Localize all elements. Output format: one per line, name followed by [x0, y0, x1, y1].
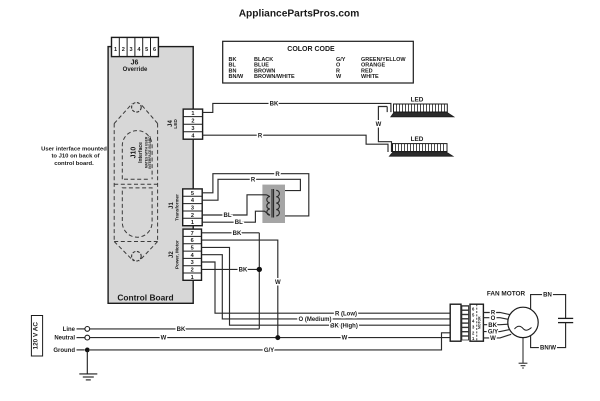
pin numbers J1	[191, 191, 195, 226]
svg-text:2: 2	[191, 119, 194, 125]
svg-text:LED: LED	[411, 97, 424, 104]
fan connector header with pin numbers	[470, 304, 483, 341]
J10 interface outline lower	[122, 188, 152, 237]
svg-text:W: W	[161, 336, 167, 342]
svg-text:5: 5	[191, 246, 194, 252]
connector J2	[183, 229, 202, 280]
wire W J2 pin6 to neutral	[202, 240, 278, 338]
120 V AC source box	[31, 316, 42, 357]
svg-text:BL: BL	[224, 213, 232, 219]
wire G/Y ground to fan connector	[90, 333, 450, 350]
svg-text:G/Y: G/Y	[264, 348, 274, 354]
pin numbers J4	[191, 111, 195, 140]
wire BK junction vertical to line	[258, 233, 260, 329]
svg-text:O (Medium): O (Medium)	[299, 317, 332, 323]
wire G/Y fan connector to motor	[483, 330, 509, 332]
fan connector P1 housing	[450, 304, 461, 341]
junction dot BK	[257, 267, 262, 272]
svg-text:Interface: Interface	[138, 142, 144, 163]
svg-text:G/Y: G/Y	[488, 330, 498, 336]
wire BK J4 pin1 to LED1	[202, 103, 391, 112]
annotation: user interface mounted to J10	[41, 146, 107, 167]
svg-text:3: 3	[191, 206, 194, 212]
wire R J1 pin5 to transformer secondary bottom	[202, 174, 309, 216]
wire BK line to J2	[90, 328, 259, 330]
svg-text:BROWN/WHITE: BROWN/WHITE	[254, 74, 295, 80]
wire W fan connector to motor	[483, 334, 511, 338]
transformer T1	[262, 185, 285, 223]
svg-text:120 V AC: 120 V AC	[32, 322, 39, 350]
svg-text:3: 3	[191, 126, 194, 132]
svg-text:BK (High): BK (High)	[330, 323, 358, 329]
svg-text:LED: LED	[173, 119, 179, 129]
color code legend box	[223, 41, 414, 83]
fan connector pin ladder	[461, 305, 469, 340]
pin numbers J2	[191, 231, 195, 281]
svg-text:1: 1	[114, 47, 117, 53]
svg-text:O: O	[491, 316, 496, 322]
svg-text:FAN MOTOR: FAN MOTOR	[487, 290, 526, 297]
svg-text:Ground: Ground	[53, 348, 75, 354]
wire R fan connector to motor	[483, 313, 510, 315]
wire O fan connector to motor	[483, 318, 508, 320]
wire O(Medium) J2 pin4 to fan connector	[202, 255, 451, 319]
wire BL J1 pin1 to transformer primary bottom	[202, 211, 270, 222]
LED LED2	[389, 136, 453, 156]
svg-text:BK: BK	[177, 327, 186, 333]
svg-text:W: W	[342, 336, 348, 342]
wire BL J1 pin2 to transformer primary top	[202, 195, 267, 215]
mounting hole top	[132, 103, 142, 113]
svg-text:BK: BK	[488, 323, 497, 329]
wire R J4 pin4 to LED2	[202, 135, 388, 152]
capacitor C1	[558, 318, 573, 322]
svg-text:3: 3	[191, 260, 194, 266]
junction dot W	[275, 335, 280, 340]
svg-text:W: W	[376, 122, 382, 128]
svg-text:6: 6	[191, 238, 194, 244]
svg-text:J10: J10	[131, 147, 138, 159]
wire BK(High) J2 pin5 to fan connector	[202, 247, 451, 325]
svg-text:BL: BL	[235, 220, 243, 226]
svg-text:R: R	[258, 133, 263, 139]
svg-text:7: 7	[191, 231, 194, 237]
svg-text:R: R	[251, 177, 256, 183]
svg-text:2: 2	[191, 213, 194, 219]
svg-text:R: R	[275, 172, 280, 178]
wire R(Low) J2 pin3 to fan connector	[202, 262, 451, 313]
label J10 Interface (rotated)	[131, 136, 152, 169]
svg-text:User interface mounted: User interface mounted	[41, 146, 107, 152]
wire R J1 pin4 to transformer secondary top	[202, 179, 300, 200]
LED LED1	[391, 97, 454, 117]
svg-text:MOTOR: MOTOR	[477, 316, 481, 329]
svg-text:W: W	[275, 280, 281, 286]
svg-text:COLOR CODE: COLOR CODE	[287, 46, 335, 53]
svg-text:to J10 on back of: to J10 on back of	[51, 154, 99, 160]
svg-text:INTERFACE BOARD: INTERFACE BOARD	[148, 136, 152, 169]
svg-text:LED: LED	[411, 136, 424, 143]
svg-text:2: 2	[122, 47, 125, 53]
motor ground	[519, 338, 528, 368]
user interface dashed outline	[114, 104, 157, 261]
svg-text:BN/W: BN/W	[540, 346, 556, 352]
J10 interface outline upper	[122, 131, 152, 180]
svg-text:2: 2	[191, 268, 194, 274]
connector J1	[183, 189, 203, 226]
svg-text:BN/W: BN/W	[229, 74, 244, 80]
svg-text:3: 3	[130, 47, 133, 53]
svg-text:BN: BN	[543, 293, 552, 299]
svg-text:BK: BK	[239, 268, 248, 274]
mounting hole bottom	[132, 251, 142, 261]
svg-text:Power, Motor: Power, Motor	[175, 240, 180, 269]
svg-text:6: 6	[153, 47, 156, 53]
svg-text:Neutral: Neutral	[54, 336, 75, 342]
svg-text:Line: Line	[63, 327, 76, 333]
control board	[108, 47, 193, 304]
wire BK J2 pin7	[202, 232, 260, 234]
svg-text:W: W	[490, 336, 496, 342]
svg-text:control board.: control board.	[54, 161, 94, 167]
svg-text:1: 1	[191, 111, 194, 117]
svg-text:5: 5	[191, 191, 194, 197]
wire BN motor to capacitor	[531, 295, 566, 319]
pin numbers J6 1-6	[114, 47, 156, 53]
svg-text:J6: J6	[131, 60, 139, 67]
svg-text:BK: BK	[270, 102, 279, 108]
svg-text:W: W	[336, 74, 342, 80]
svg-text:R (Low): R (Low)	[335, 311, 357, 317]
connector J6	[112, 37, 159, 56]
svg-text:Transformer: Transformer	[175, 194, 180, 221]
svg-text:Control Board: Control Board	[117, 293, 173, 303]
svg-text:AppliancePartsPros.com: AppliancePartsPros.com	[239, 9, 360, 20]
wire BK fan connector to motor	[483, 323, 508, 326]
wire W neutral to fan connector	[90, 337, 450, 339]
wire BK J2 pin2	[202, 268, 260, 270]
svg-text:Override: Override	[123, 67, 148, 73]
wire BN/W motor to capacitor	[531, 323, 566, 348]
connector J4	[183, 109, 202, 139]
svg-text:1: 1	[191, 220, 194, 226]
svg-text:5: 5	[145, 47, 148, 53]
earth ground symbol	[79, 350, 97, 380]
svg-text:WHITE: WHITE	[361, 74, 379, 80]
svg-text:BK: BK	[233, 231, 242, 237]
svg-text:1: 1	[191, 275, 194, 281]
wire W LED1 to LED2	[378, 107, 391, 153]
